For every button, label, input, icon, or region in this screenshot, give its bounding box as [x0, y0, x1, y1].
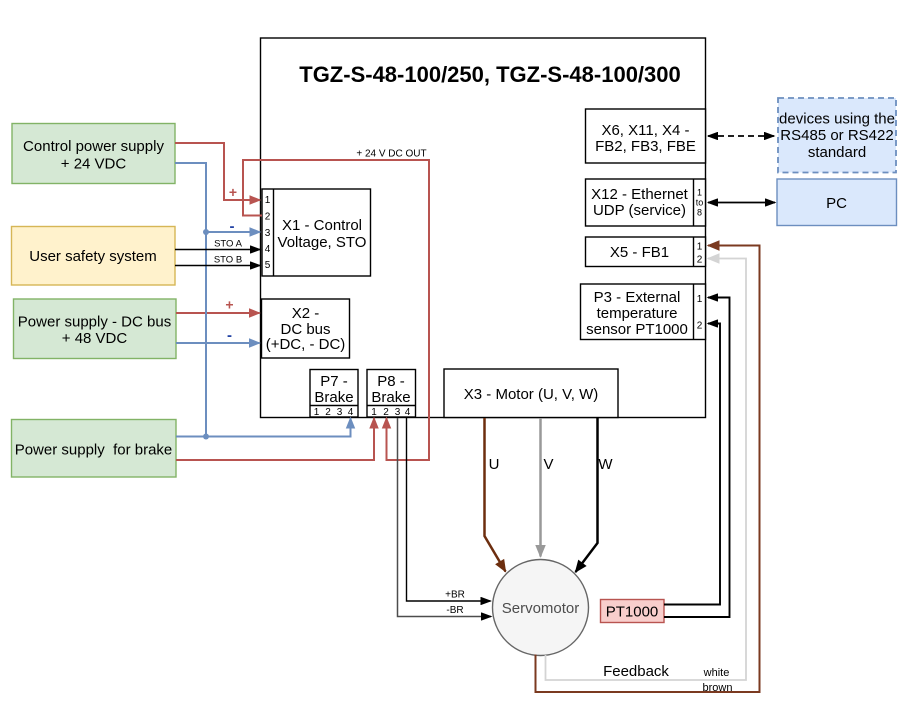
wire: control supply + to X1 pin 1 (red) — [175, 143, 260, 200]
svg-text:-BR: -BR — [446, 605, 463, 616]
svg-text:standard: standard — [808, 144, 866, 161]
svg-text:2: 2 — [383, 407, 389, 418]
wire: feedback white to X5 pin 2 — [546, 259, 747, 681]
svg-text:8: 8 — [697, 208, 702, 218]
connector X6, X11, X4 - FB2, FB3, FBE — [586, 109, 706, 163]
sensor PT1000 — [601, 600, 665, 623]
svg-text:PC: PC — [826, 195, 847, 212]
svg-text:-: - — [227, 327, 232, 344]
connector X5 - FB1 — [586, 237, 706, 267]
svg-text:to: to — [696, 198, 704, 208]
connector X1 - Control Voltage, STO — [262, 189, 371, 276]
main drive enclosure TGZ-S-48-100 — [261, 38, 706, 418]
svg-text:1: 1 — [697, 188, 702, 198]
svg-text:UDP (service): UDP (service) — [593, 202, 686, 219]
connector P3 - External temperature sensor PT1000 — [581, 284, 706, 340]
svg-text:brown: brown — [703, 682, 733, 694]
wire: PT1000 to P3 pin 2 (black) — [664, 324, 720, 605]
wire: blue vertical bus continuation — [205, 232, 207, 437]
svg-text:X3 - Motor (U, V, W): X3 - Motor (U, V, W) — [464, 386, 598, 403]
svg-text:STO B: STO B — [214, 255, 242, 266]
svg-text:white: white — [703, 667, 730, 679]
svg-text:5: 5 — [265, 260, 271, 271]
wire: motor phase W (black) — [576, 418, 598, 572]
wire: control supply - to X1 pin 3 (blue) — [175, 163, 260, 232]
svg-text:1: 1 — [697, 294, 703, 305]
svg-text:2: 2 — [325, 407, 331, 418]
svg-text:3: 3 — [265, 228, 271, 239]
wire: STO B to X1 pin 5 (black) — [175, 265, 260, 267]
wire: DC bus + to X2 (red) — [176, 312, 260, 314]
block: PC — [777, 179, 897, 226]
svg-text:+ 48 VDC: + 48 VDC — [62, 330, 128, 347]
wire: brake power supply to P7 pin 4 (blue) — [176, 418, 351, 437]
junction at brake blue branch — [203, 434, 209, 440]
svg-text:-: - — [230, 218, 235, 235]
junction at X1 pin 3 branch — [203, 229, 209, 235]
svg-text:Control power supply: Control power supply — [23, 138, 164, 155]
svg-text:4: 4 — [405, 407, 411, 418]
svg-text:X12 - Ethernet: X12 - Ethernet — [591, 186, 689, 203]
svg-text:1: 1 — [697, 242, 703, 253]
svg-text:3: 3 — [337, 407, 343, 418]
svg-text:Feedback: Feedback — [603, 663, 669, 680]
svg-text:W: W — [598, 456, 613, 473]
wire: P8 pin 4 to servomotor +BR (black) — [407, 418, 491, 601]
svg-text:Brake: Brake — [314, 389, 353, 406]
wire: motor phase V (gray) — [539, 418, 542, 557]
svg-text:4: 4 — [265, 244, 271, 255]
wire: feedback brown to X5 pin 1 — [536, 246, 760, 693]
svg-text:1: 1 — [371, 407, 377, 418]
pins 1 to 8 of X12 — [696, 188, 704, 218]
wire: X12 to PC double arrow (black) — [708, 202, 775, 204]
block: Power supply - DC bus + 48 VDC — [14, 299, 177, 359]
svg-text:3: 3 — [395, 407, 401, 418]
svg-text:X6, X11, X4 -: X6, X11, X4 - — [601, 122, 689, 139]
svg-text:temperature: temperature — [597, 305, 678, 322]
svg-text:TGZ-S-48-100/250, TGZ-S-48-100: TGZ-S-48-100/250, TGZ-S-48-100/300 — [299, 62, 681, 87]
svg-text:Brake: Brake — [371, 389, 410, 406]
block: devices using the RS485 or RS422 standard — [778, 98, 896, 173]
block: Power supply for brake — [12, 420, 177, 478]
block: User safety system — [12, 227, 176, 286]
svg-text:+: + — [229, 184, 237, 200]
connector X3 - Motor (U, V, W) — [444, 369, 618, 418]
svg-text:devices using the: devices using the — [779, 111, 895, 128]
svg-text:+: + — [225, 297, 233, 313]
block: Control power supply + 24 VDC — [12, 124, 175, 184]
svg-text:U: U — [489, 456, 500, 473]
wire: STO A to X1 pin 4 (black) — [175, 249, 260, 251]
svg-text:P8 -: P8 - — [377, 373, 405, 390]
svg-text:4: 4 — [348, 407, 354, 418]
svg-text:+BR: +BR — [445, 590, 465, 601]
svg-text:(+DC, - DC): (+DC, - DC) — [266, 336, 346, 353]
svg-text:+ 24 VDC: + 24 VDC — [61, 156, 127, 173]
servomotor M1 — [493, 560, 589, 656]
svg-text:Power supply for brake: Power supply for brake — [15, 442, 173, 459]
svg-text:RS485 or RS422: RS485 or RS422 — [780, 127, 893, 144]
svg-text:Power supply - DC bus: Power supply - DC bus — [18, 314, 171, 331]
svg-text:PT1000: PT1000 — [606, 604, 659, 621]
svg-text:X5 - FB1: X5 - FB1 — [610, 244, 669, 261]
svg-text:P3 - External: P3 - External — [594, 289, 681, 306]
svg-text:2: 2 — [697, 321, 703, 332]
svg-text:Voltage, STO: Voltage, STO — [278, 234, 367, 251]
wire: P8 pin 3 to servomotor -BR (dark gray) — [398, 418, 492, 617]
connector P7 - Brake — [310, 370, 358, 419]
connector P8 - Brake — [367, 370, 416, 419]
svg-text:Servomotor: Servomotor — [502, 600, 580, 617]
svg-text:X2 -: X2 - — [292, 305, 320, 322]
connector X12 - Ethernet UDP (service) — [586, 179, 706, 226]
svg-text:sensor PT1000: sensor PT1000 — [586, 321, 688, 338]
connector X2 - DC bus — [262, 299, 350, 358]
wire: DC bus - to X2 (blue) — [176, 342, 260, 344]
wire: PT1000 to P3 pin 1 (black) — [664, 298, 730, 618]
svg-text:STO A: STO A — [214, 239, 242, 250]
svg-text:User safety system: User safety system — [29, 248, 157, 265]
svg-text:1: 1 — [314, 407, 320, 418]
svg-text:P7 -: P7 - — [320, 373, 348, 390]
wire: +24 V DC OUT loop from X1 pin 2 to P8 pin 2 (red) — [243, 160, 429, 460]
wire: brake power supply to P8 pin 1 (red) — [176, 418, 374, 460]
svg-text:X1 - Control: X1 - Control — [282, 217, 362, 234]
wire: X6 to RS485 devices dashed double arrow (black) — [708, 135, 774, 137]
svg-text:+ 24 V DC OUT: + 24 V DC OUT — [356, 149, 426, 160]
svg-text:1: 1 — [265, 195, 271, 206]
svg-text:V: V — [543, 456, 553, 473]
svg-text:FB2, FB3, FBE: FB2, FB3, FBE — [595, 138, 696, 155]
wire: motor phase U (brown) — [485, 418, 506, 572]
svg-text:2: 2 — [697, 255, 703, 266]
svg-text:2: 2 — [265, 212, 271, 223]
